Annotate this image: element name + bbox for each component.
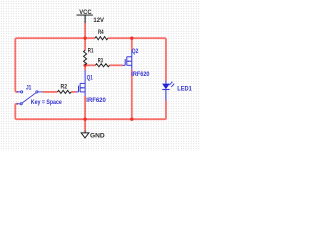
svg-text:12V: 12V bbox=[93, 17, 104, 24]
transistor Q1 (IRF620) bbox=[76, 71, 85, 97]
svg-text:Q2: Q2 bbox=[132, 48, 139, 55]
wire: Q2 source down to bottom rail bbox=[131, 70, 133, 119]
wire: R2 right to Q1 gate lead bbox=[71, 91, 76, 93]
wire: left rail top segment + top wire VCC row bbox=[15, 38, 95, 92]
svg-text:IRF620: IRF620 bbox=[86, 97, 106, 104]
wire: junction B down to Q2 drain lead bbox=[131, 38, 133, 50]
svg-text:J1: J1 bbox=[26, 85, 32, 92]
ground symbol GND bbox=[81, 130, 89, 138]
junction node D (Q1 source / GND / bottom rail) bbox=[83, 118, 86, 121]
wire: top wire right of R4 to right rail, down to LED anode bbox=[108, 38, 166, 80]
transistor Q2 (IRF620) bbox=[122, 50, 131, 70]
svg-text:GND: GND bbox=[90, 133, 105, 140]
svg-text:Q1: Q1 bbox=[87, 74, 93, 81]
resistor R4 bbox=[95, 37, 108, 40]
svg-text:LED1: LED1 bbox=[177, 85, 192, 92]
junction node C (R1 / R3 / Q1 drain) bbox=[83, 64, 86, 67]
svg-text:IRF620: IRF620 bbox=[131, 71, 149, 78]
wire: GND stem red part bbox=[84, 119, 86, 130]
switch J1 bbox=[17, 91, 43, 105]
junction node A (VCC / top wire / R1) bbox=[83, 37, 86, 40]
wire: junction A down to R1 top bbox=[84, 38, 86, 50]
svg-text:R2: R2 bbox=[61, 84, 68, 91]
LED LED1 bbox=[162, 81, 174, 101]
wire: R1 bottom through junction C to Q1 drain lead bbox=[84, 65, 86, 71]
wire: junction C to R3 left bbox=[85, 64, 95, 66]
svg-text:R4: R4 bbox=[98, 29, 104, 36]
resistor R2 bbox=[58, 90, 72, 93]
wire: J1 common pin to R2 left bbox=[42, 91, 57, 93]
svg-text:Key = Space: Key = Space bbox=[31, 99, 62, 106]
wire: Q1 source down to bottom rail bbox=[84, 96, 86, 119]
svg-text:R1: R1 bbox=[88, 47, 94, 54]
svg-text:R3: R3 bbox=[98, 57, 103, 64]
wire: R3 right to Q2 gate lead bbox=[109, 64, 122, 66]
wire: VCC lead down to junction A bbox=[84, 23, 86, 38]
junction node E (Q2 source / bottom rail) bbox=[130, 118, 133, 121]
power symbol VCC bbox=[77, 15, 93, 23]
resistor R1 bbox=[84, 50, 87, 65]
resistor R3 bbox=[95, 64, 109, 67]
svg-text:VCC: VCC bbox=[79, 9, 92, 16]
wire: left rail bottom segment + bottom rail + right rail up to LED cathode bbox=[15, 100, 166, 119]
junction node B (R4 wire / Q2 drain) bbox=[130, 37, 133, 40]
